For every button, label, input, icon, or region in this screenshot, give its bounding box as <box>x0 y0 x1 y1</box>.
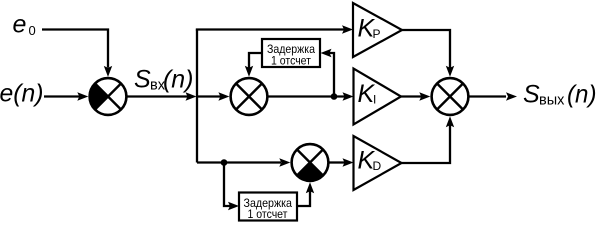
summer S3 (differencer, bottom quadrant filled) <box>292 144 329 181</box>
svg-text:I: I <box>373 93 376 107</box>
summer S2 (integrator accumulator) <box>231 78 268 115</box>
wire KP to summer S4 <box>402 30 454 77</box>
svg-text:1 отсчет: 1 отсчет <box>271 54 311 68</box>
wire KD to summer S4 <box>402 116 455 163</box>
node Svyx(n) output label <box>523 81 597 109</box>
svg-text:S: S <box>523 81 540 109</box>
summer S1 (comparator, left quadrant filled) <box>90 78 127 115</box>
wire e0 to summer S1 <box>42 30 112 77</box>
svg-text:D: D <box>373 159 382 173</box>
wire branch to amplifier KP <box>196 25 353 33</box>
amplifier KI label <box>358 80 377 108</box>
svg-text:(n): (n) <box>163 66 194 94</box>
junction dot feedback tap <box>331 93 338 100</box>
wire S1 to branch node <box>128 92 197 100</box>
wire S4 to output <box>470 92 518 100</box>
amplifier KD label <box>358 146 382 174</box>
delay D1 box <box>262 39 320 68</box>
wire delay D1 to summer S2 <box>245 53 262 77</box>
svg-text:e: e <box>13 11 27 39</box>
node e0 label <box>13 11 36 39</box>
wire tap to delay D1 <box>321 49 335 97</box>
svg-text:1 отсчет: 1 отсчет <box>248 207 288 221</box>
wire S2 to amplifier KI <box>268 92 354 100</box>
amplifier KP triangle <box>353 3 402 57</box>
svg-text:P: P <box>373 27 381 41</box>
node Svx(n) label <box>134 66 194 94</box>
amplifier KI triangle <box>354 69 402 125</box>
amplifier KD triangle <box>354 136 402 190</box>
wire branch to summer S3 <box>197 158 290 166</box>
wire delay D2 to summer S3 <box>297 182 314 206</box>
junction dot derivative tap <box>221 159 228 166</box>
wire KI to summer S4 <box>401 92 430 100</box>
amplifier KP label <box>358 14 381 42</box>
delay D2 box <box>239 193 297 222</box>
svg-text:0: 0 <box>29 23 36 38</box>
svg-text:S: S <box>134 66 151 94</box>
wire branch vertical bus <box>196 30 198 163</box>
svg-text:(n): (n) <box>567 81 597 109</box>
wire S3 to amplifier KD <box>330 158 354 166</box>
wire e(n) to summer S1 <box>44 92 88 100</box>
wire tap to delay D2 <box>224 163 239 211</box>
svg-text:e(n): e(n) <box>0 79 44 107</box>
wire branch to summer S2 <box>197 92 229 100</box>
summer S4 output adder <box>432 78 469 115</box>
svg-text:вых: вых <box>539 93 565 109</box>
